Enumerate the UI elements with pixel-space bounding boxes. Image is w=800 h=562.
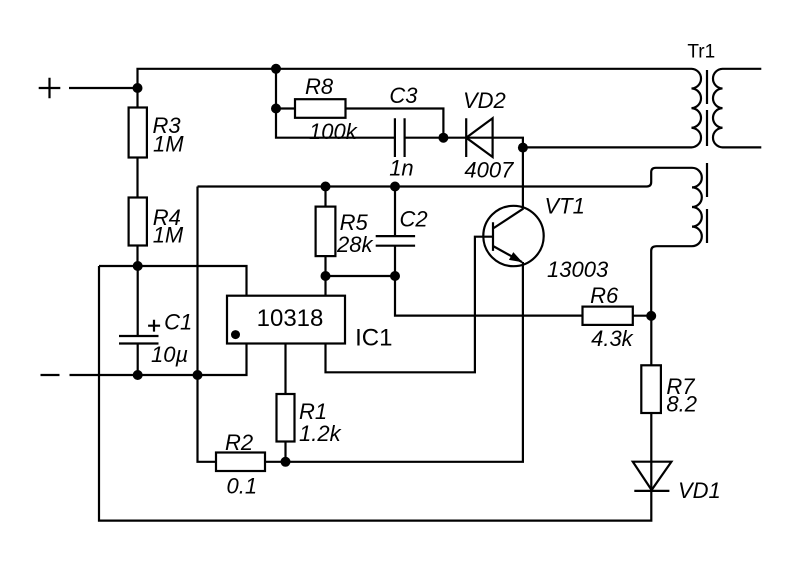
svg-text:1M: 1M xyxy=(153,223,184,248)
svg-text:4007: 4007 xyxy=(464,158,514,183)
svg-text:VD1: VD1 xyxy=(678,478,721,503)
svg-text:R6: R6 xyxy=(590,283,619,308)
svg-text:4.3k: 4.3k xyxy=(591,326,634,351)
svg-text:Tr1: Tr1 xyxy=(687,42,715,63)
svg-text:1.2k: 1.2k xyxy=(299,421,342,446)
svg-text:1M: 1M xyxy=(153,132,184,157)
svg-text:C1: C1 xyxy=(164,310,192,335)
svg-text:10µ: 10µ xyxy=(151,342,188,367)
svg-text:100k: 100k xyxy=(309,119,358,144)
svg-text:10318: 10318 xyxy=(257,305,324,332)
svg-text:R8: R8 xyxy=(305,74,334,99)
svg-text:C2: C2 xyxy=(400,207,428,232)
svg-text:8.2: 8.2 xyxy=(666,392,697,417)
svg-text:1n: 1n xyxy=(389,156,413,181)
svg-text:IC1: IC1 xyxy=(355,325,392,352)
svg-text:R2: R2 xyxy=(225,430,253,455)
svg-text:28k: 28k xyxy=(336,232,373,257)
svg-text:VD2: VD2 xyxy=(463,88,506,113)
svg-text:0.1: 0.1 xyxy=(227,474,258,499)
svg-text:VT1: VT1 xyxy=(545,194,585,219)
svg-text:C3: C3 xyxy=(389,83,418,108)
svg-text:13003: 13003 xyxy=(547,257,609,282)
